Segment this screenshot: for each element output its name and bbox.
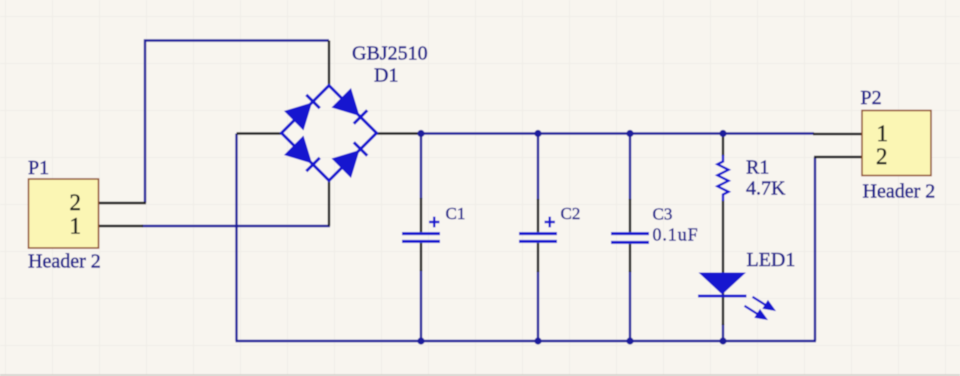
junction top rail at C3: [626, 130, 633, 137]
C2 plus sign: [545, 217, 556, 228]
wire: C3 top: [629, 134, 631, 201]
wire: P1 pin2 riser and top run to bridge: [145, 41, 329, 204]
pin: P1 pin 1 stub: [98, 225, 143, 227]
pin: C3 upper pin: [629, 199, 631, 232]
pin: C3 lower pin: [629, 244, 631, 272]
wire: C1 top: [420, 134, 422, 200]
junction bottom rail at C1: [417, 337, 424, 344]
capacitor C1: [402, 234, 440, 242]
svg-text:2: 2: [876, 144, 888, 169]
pin: C1 lower pin: [420, 243, 422, 271]
svg-text:D1: D1: [374, 65, 398, 87]
svg-text:P2: P2: [861, 87, 882, 109]
LED1 emission arrow lower: [745, 306, 766, 319]
junction bottom rail at LED1: [719, 337, 726, 344]
svg-text:Header 2: Header 2: [863, 181, 936, 203]
LED1 emission arrow upper: [753, 297, 774, 310]
svg-text:4.7K: 4.7K: [746, 178, 786, 200]
bridge diode bottom-right: [333, 140, 369, 176]
bridge diode top-right: [333, 89, 369, 125]
wire: LED1 cathode to bottom rail: [722, 324, 724, 341]
resistor R1 zigzag: [718, 155, 729, 201]
svg-text:C2: C2: [561, 204, 581, 223]
pin: C1 upper pin: [420, 198, 422, 232]
pin: C2 upper pin: [537, 199, 539, 232]
junction bottom rail at C2: [534, 337, 541, 344]
wire: C3 bottom: [629, 271, 631, 341]
wire: bridge left drop: [235, 134, 237, 342]
junction bottom rail at C3: [626, 337, 633, 344]
pin: R1 to LED1 link: [722, 200, 724, 325]
wire: top rail: [421, 132, 814, 134]
svg-text:2: 2: [70, 190, 82, 215]
LED1 triangle: [699, 273, 747, 295]
connector P2 body: [862, 111, 931, 176]
svg-text:C1: C1: [446, 204, 466, 223]
svg-text:LED1: LED1: [747, 249, 796, 271]
wire: C1 bottom: [420, 270, 422, 341]
svg-text:1: 1: [70, 214, 82, 239]
junction top rail at R1: [719, 130, 726, 137]
connector P1 body: [29, 179, 99, 248]
pin: bridge right pin: [376, 132, 421, 134]
svg-text:Header 2: Header 2: [28, 251, 101, 273]
pin: bridge top pin: [328, 41, 330, 88]
svg-text:0.1uF: 0.1uF: [653, 225, 699, 245]
svg-text:GBJ2510: GBJ2510: [352, 43, 428, 65]
capacitor C2: [519, 234, 557, 242]
wire: bottom rail: [236, 340, 817, 342]
bridge diode bottom-left: [285, 137, 321, 173]
capacitor C3: [611, 234, 649, 243]
C1 plus sign: [429, 217, 440, 228]
junction top rail at C1: [417, 130, 424, 137]
svg-text:R1: R1: [746, 157, 769, 179]
wire: P1 pin1 run to bridge bottom pin: [142, 225, 330, 227]
pin: C2 lower pin: [537, 243, 539, 272]
pin: bridge bottom pin: [328, 179, 330, 226]
bridge rectifier D1 diamond: [282, 86, 377, 181]
bridge diode top-left: [285, 93, 321, 129]
pin: bridge left pin: [237, 132, 283, 134]
svg-text:1: 1: [877, 121, 889, 146]
svg-text:C3: C3: [653, 205, 673, 224]
LED1 cathode bar: [698, 295, 747, 298]
svg-text:P1: P1: [28, 157, 49, 179]
pin: P2 pin 1 stub: [813, 133, 862, 135]
pin: P1 pin 2 stub: [98, 202, 146, 204]
junction top rail at C2: [534, 130, 541, 137]
wire: P2 pin2 drop: [814, 157, 816, 341]
wire: C2 top: [537, 134, 539, 201]
wire: C2 bottom: [537, 271, 539, 341]
pin: R1 top pin: [722, 134, 724, 157]
pin: P2 pin 2 stub: [814, 156, 862, 158]
